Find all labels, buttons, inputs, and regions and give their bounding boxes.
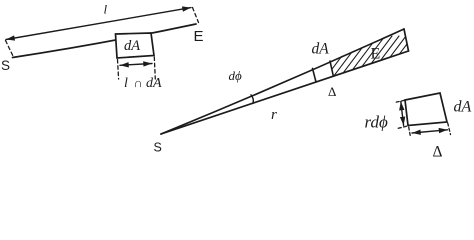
svg-text:E: E <box>194 28 204 45</box>
svg-text:S: S <box>1 58 10 73</box>
dashed leader left (dimension l to S end) <box>6 41 14 57</box>
svg-text:r: r <box>271 107 277 123</box>
svg-text:E: E <box>371 46 381 63</box>
dimension arrow Δ (bottom side) <box>412 130 448 133</box>
dashed extension top-left of quad <box>396 100 405 102</box>
dashed extension left below square <box>118 60 119 80</box>
svg-text:∩: ∩ <box>134 76 143 90</box>
dashed leader right (dimension l to E end) <box>193 8 199 23</box>
segment S-E <box>13 24 197 58</box>
svg-text:rdϕ: rdϕ <box>365 113 388 132</box>
dashed extension right below square <box>154 57 155 79</box>
dashed extension below bottom-left corner <box>409 127 411 136</box>
dimension arrow rdφ (left side) <box>401 102 404 126</box>
wedge upper line S to E screen <box>161 29 404 134</box>
dashed extension bottom-right of quad <box>448 123 451 135</box>
dimension line l <box>6 8 191 40</box>
cross line 2 (far side of dA slab) <box>330 61 333 76</box>
dashed extension bottom-left of quad <box>398 126 407 128</box>
wedge lower line S to E screen <box>161 51 409 134</box>
cross line 1 (near side of dA slab) <box>313 68 317 82</box>
area element square dA on segment <box>116 33 155 58</box>
svg-text:dA: dA <box>454 99 472 116</box>
svg-text:dA: dA <box>312 41 330 58</box>
svg-text:dA: dA <box>146 76 162 91</box>
svg-text:dϕ: dϕ <box>229 68 243 83</box>
svg-text:l: l <box>124 76 128 91</box>
svg-text:Δ: Δ <box>433 144 443 161</box>
angle arc dφ <box>251 95 253 104</box>
svg-text:l: l <box>104 2 108 17</box>
svg-text:Δ: Δ <box>328 84 336 99</box>
svg-text:dA: dA <box>124 38 140 54</box>
hatched screen E region <box>317 36 462 89</box>
screen E right edge <box>404 29 409 51</box>
svg-text:S: S <box>154 141 162 155</box>
small area element quad (diagram 3) <box>405 93 447 126</box>
dimension arrow l ∩ dA <box>120 64 152 66</box>
